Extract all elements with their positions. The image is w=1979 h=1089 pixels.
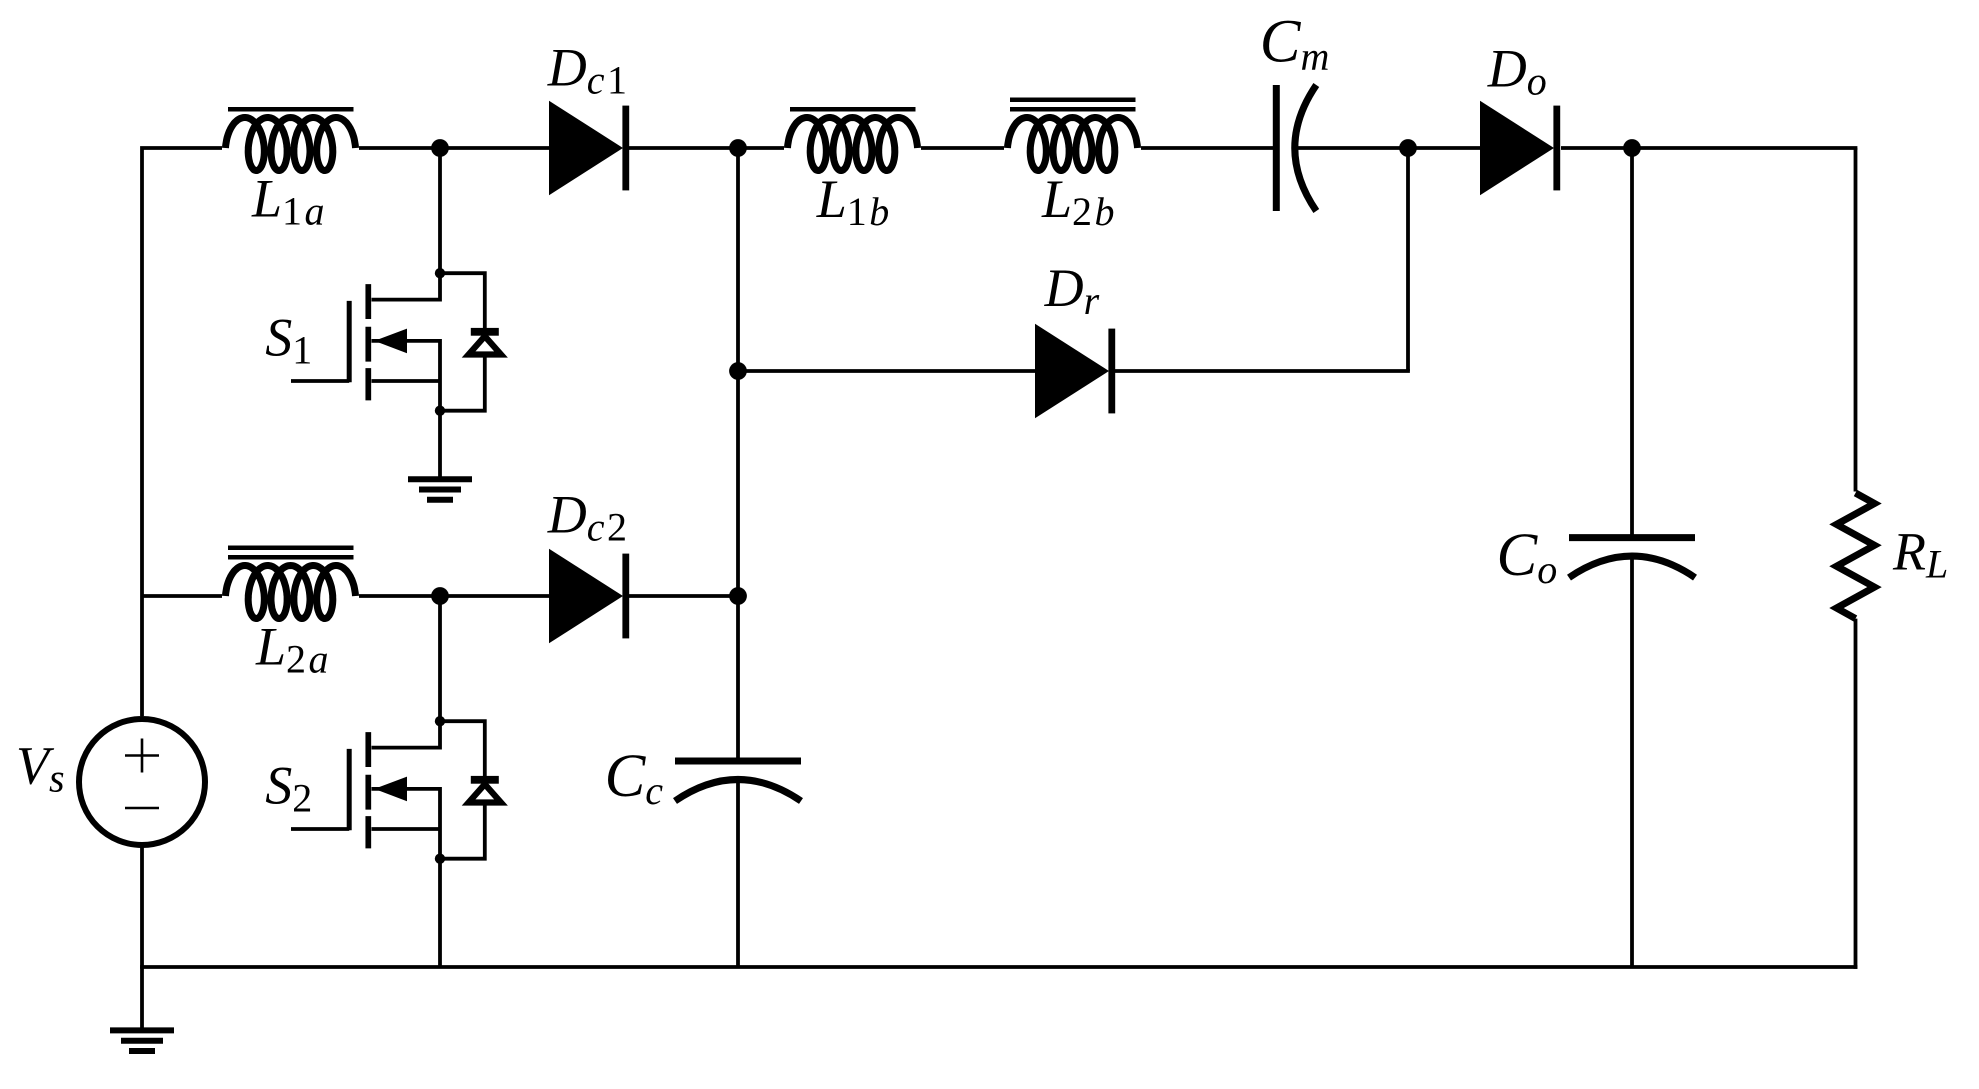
wire L2a to Dc2 — [359, 594, 549, 598]
node S2 drain — [435, 716, 445, 726]
transistor S1 — [291, 273, 440, 411]
resistor RL — [1837, 493, 1875, 619]
wire ground stub — [140, 967, 144, 1028]
body diode of S2 — [440, 721, 501, 859]
node L2a/S2/Dc2 — [431, 587, 449, 605]
inductor L1b — [788, 109, 918, 170]
capacitor Cm — [1276, 85, 1316, 211]
wire top rail left + left rail upper — [142, 148, 222, 716]
node Dc2/central rail — [729, 587, 747, 605]
wire L1a to Dc1 — [359, 146, 549, 150]
diode Dc1 — [549, 101, 629, 196]
wire Cm to node — [1296, 146, 1408, 150]
capacitor Co — [1569, 538, 1695, 578]
wire S1 source to ground — [438, 411, 442, 480]
wire Dr to riser — [1115, 369, 1410, 373]
wire right rail upper — [1854, 148, 1858, 492]
node S1 drain — [435, 268, 445, 278]
wire second rail from left rail — [142, 594, 222, 598]
wire Co column lower — [1630, 559, 1634, 967]
wire central rail upper segment — [736, 148, 740, 371]
wire Do to top-right corner — [1561, 146, 1857, 150]
node Dr junction — [729, 362, 747, 380]
body diode of S1 — [440, 273, 501, 411]
wire Dc2 to central rail — [629, 594, 738, 598]
ground main — [110, 1030, 174, 1051]
wire left rail lower — [140, 845, 144, 967]
diode Do — [1480, 101, 1560, 196]
node Dc1/L1b/central rail — [729, 139, 747, 157]
wire Co column upper — [1630, 148, 1634, 535]
wire Cc to bottom rail — [736, 782, 740, 967]
wire L2b to Cm — [1141, 146, 1274, 150]
wire node to Do — [1408, 146, 1480, 150]
wire central rail mid segment — [736, 371, 740, 596]
inductor L2a — [226, 548, 356, 619]
ground below S1 — [408, 479, 472, 500]
node L1a/S1/Dc1 — [431, 139, 449, 157]
source Vs — [79, 719, 205, 845]
wire Dr row left — [738, 369, 1035, 373]
node S1 source — [435, 406, 445, 416]
capacitor Cc — [675, 761, 801, 801]
node Do/Co — [1623, 139, 1641, 157]
node S2 source — [435, 854, 445, 864]
wire L1b to L2b — [921, 146, 1004, 150]
diode Dr — [1035, 324, 1115, 419]
node Cm/Do/Dr — [1399, 139, 1417, 157]
transistor S2 — [291, 721, 440, 859]
inductor L1a — [226, 109, 356, 170]
wire S2 source to bottom rail — [438, 859, 442, 967]
wire Dr riser to top rail — [1406, 148, 1410, 371]
wire bottom rail — [140, 965, 1857, 969]
wire right rail lower — [1854, 619, 1858, 969]
wire second node to S2 drain — [438, 596, 442, 721]
wire central rail to Cc — [736, 596, 740, 761]
wire Dc1 to L1b — [629, 146, 784, 150]
diode Dc2 — [549, 549, 629, 644]
inductor L2b — [1008, 100, 1138, 171]
wire top node to S1 drain — [438, 148, 442, 273]
